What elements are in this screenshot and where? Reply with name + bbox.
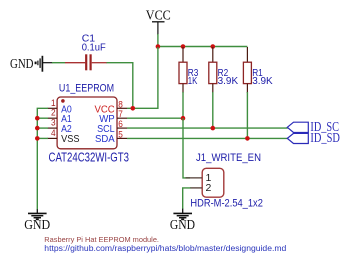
wire R3 bottom to WP net xyxy=(182,92,184,118)
svg-text:U1_EEPROM: U1_EEPROM xyxy=(59,83,114,95)
svg-text:GND: GND xyxy=(10,57,34,72)
ground GND left xyxy=(10,56,53,72)
wire J1 pin2 to ground xyxy=(183,188,191,209)
pin 1 marker dot xyxy=(61,99,65,103)
svg-text:GND: GND xyxy=(24,218,50,233)
wire R2 bottom to SCL net xyxy=(212,92,214,128)
connector J1 xyxy=(186,168,224,197)
ground under J1 xyxy=(170,209,195,234)
junction bus pin2 xyxy=(35,116,40,121)
junction SDA at R1 bottom xyxy=(245,136,250,141)
pin 7 stub xyxy=(117,117,127,119)
pin 6 stub xyxy=(117,127,127,129)
svg-text:3.9K: 3.9K xyxy=(218,75,239,87)
junction bus pin3 xyxy=(35,126,40,131)
svg-text:ID_SD: ID_SD xyxy=(310,131,340,146)
junction at pin8 xyxy=(131,106,136,111)
svg-text:https://github.com/raspberrypi: https://github.com/raspberrypi/hats/blob… xyxy=(44,244,286,253)
wire VCC rail xyxy=(158,46,248,48)
ground under VSS bus xyxy=(24,209,50,233)
pin 2 stub xyxy=(48,117,58,119)
svg-text:0.1uF: 0.1uF xyxy=(82,42,106,54)
wire SCL net pin6 to ID_SC xyxy=(127,127,288,129)
resistor R2 xyxy=(209,47,217,93)
pin 3 stub xyxy=(48,127,58,129)
svg-text:3.9K: 3.9K xyxy=(252,75,273,87)
pin 4 stub xyxy=(48,137,58,139)
wire R1 bottom to SDA net xyxy=(246,92,248,138)
wire SDA net pin5 to ID_SD xyxy=(127,137,288,139)
junction at VCC stem xyxy=(156,44,161,49)
svg-text:CAT24C32WI-GT3: CAT24C32WI-GT3 xyxy=(49,150,130,164)
junction at R2 top xyxy=(211,44,216,49)
wire C1 to pin8 branch xyxy=(107,63,133,109)
net label ID_SC xyxy=(287,120,339,135)
svg-text:5: 5 xyxy=(118,129,123,140)
IC U1 EEPROM body xyxy=(57,97,117,149)
svg-text:HDR-M-2.54_1x2: HDR-M-2.54_1x2 xyxy=(190,198,263,210)
resistor R1 xyxy=(243,47,251,93)
wire pin8 to VCC branch xyxy=(127,47,158,108)
junction SCL at R2 bottom xyxy=(211,126,216,131)
svg-text:1K: 1K xyxy=(188,75,198,87)
capacitor C1 xyxy=(65,54,107,70)
wire WP net pin7 to R3 xyxy=(127,117,183,119)
pin 8 stub xyxy=(117,107,127,109)
wire WP down to J1 pin1 xyxy=(183,118,190,178)
junction bus pin4 xyxy=(35,136,40,141)
svg-text:J1_WRITE_EN: J1_WRITE_EN xyxy=(196,152,261,164)
svg-text:VSS: VSS xyxy=(61,134,80,145)
junction WP at R3 bottom xyxy=(181,116,186,121)
power symbol VCC xyxy=(146,9,171,35)
wire GND to C1 xyxy=(52,62,65,64)
svg-text:4: 4 xyxy=(51,128,56,139)
wire VCC stem to rail xyxy=(157,34,159,47)
junction at R3 top xyxy=(181,44,186,49)
svg-text:SDA: SDA xyxy=(95,134,115,145)
svg-text:2: 2 xyxy=(206,182,212,194)
resistor R3 xyxy=(179,47,187,93)
wire left pin bus xyxy=(37,108,48,210)
svg-text:GND: GND xyxy=(170,218,195,233)
pin 1 stub xyxy=(48,107,58,109)
net label ID_SD xyxy=(287,131,340,146)
pin 5 stub xyxy=(117,137,127,139)
svg-text:Rasberry Pi Hat EEPROM module.: Rasberry Pi Hat EEPROM module. xyxy=(44,235,159,244)
